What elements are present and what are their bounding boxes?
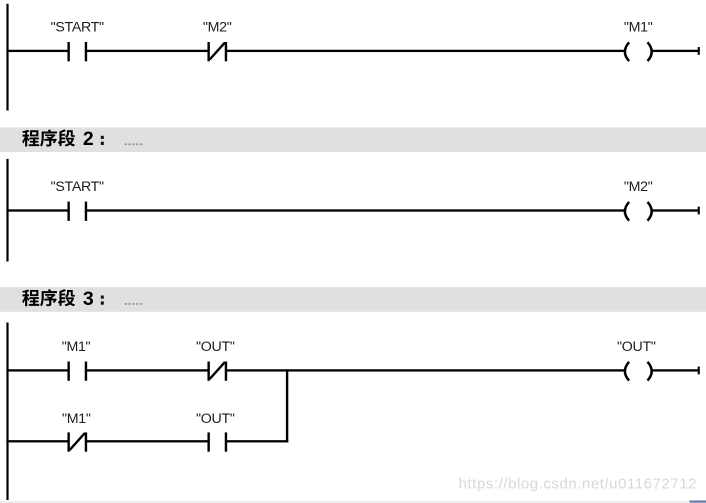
svg-text:"M2": "M2" <box>624 179 653 195</box>
wire network 1: coil M1 to right end <box>651 50 699 52</box>
contact M1 (normally closed): left bar <box>67 432 69 451</box>
wire network 3 bottom branch: M1 to OUT <box>86 440 209 442</box>
network 3 title character 序 <box>40 289 57 306</box>
wire network 2: rail to contact START <box>6 209 68 211</box>
svg-text:"OUT": "OUT" <box>196 339 235 355</box>
coil M1: left parenthesis <box>625 42 629 61</box>
right rail tick (network 2) <box>698 207 700 215</box>
contact OUT (normally open): left bar <box>207 432 209 451</box>
left power rail (network 2) <box>6 159 8 262</box>
wire network 3: coil OUT to right end <box>651 369 699 371</box>
coil M2: right parenthesis <box>648 202 652 221</box>
network 3 comment placeholder dots <box>125 303 127 305</box>
wire network 1: rail to contact START <box>6 50 68 52</box>
network 2 title character 段 <box>58 129 75 146</box>
network 2 title character 序 <box>40 129 57 146</box>
svg-text:"START": "START" <box>51 179 104 195</box>
wire network 1: M2 to coil M1 <box>226 50 625 52</box>
contact OUT (normally closed): left bar <box>207 362 209 381</box>
network 2 header band <box>0 127 706 152</box>
svg-text:"M2": "M2" <box>203 19 232 35</box>
contact M1 (normally open): right bar <box>85 362 87 381</box>
svg-text:"M1": "M1" <box>62 339 91 355</box>
coil M2: left parenthesis <box>625 202 629 221</box>
network 3 title character 段 <box>58 289 75 306</box>
contact M1 (normally open): left bar <box>67 362 69 381</box>
wire network 3 top branch: rail to contact M1 <box>6 369 68 371</box>
network 2 title colon <box>101 136 104 139</box>
wire network 3 bottom branch: OUT to junction <box>226 440 288 442</box>
svg-text:2: 2 <box>83 128 94 150</box>
right rail tick (network 1) <box>698 47 700 55</box>
svg-text:"M1": "M1" <box>624 19 653 35</box>
contact M1 (normally closed): right bar <box>85 432 87 451</box>
network 3 title colon <box>101 296 104 299</box>
vertical junction wire joining bottom branch to top branch <box>286 369 288 442</box>
wire network 2: coil M2 to right end <box>651 209 699 211</box>
contact START (normally open): left bar <box>67 202 69 221</box>
coil M1: right parenthesis <box>648 42 652 61</box>
contact OUT (normally open): right bar <box>225 432 227 451</box>
svg-text:3: 3 <box>83 288 94 310</box>
wire network 3 top branch: OUT to coil OUT <box>226 369 625 371</box>
svg-text:"M1": "M1" <box>62 411 91 427</box>
svg-text:"OUT": "OUT" <box>196 411 235 427</box>
svg-text:https://blog.csdn.net/u0116727: https://blog.csdn.net/u011672712 <box>459 476 697 493</box>
network 2 title character 程 <box>22 130 39 147</box>
network 2 comment placeholder dots <box>125 143 127 145</box>
bottom-right scrollbar button <box>690 501 706 503</box>
svg-text:"OUT": "OUT" <box>617 339 656 355</box>
contact M2 (normally closed): left bar <box>207 42 209 61</box>
contact OUT (normally closed): right bar <box>225 362 227 381</box>
wire network 2: START to coil M2 <box>86 209 625 211</box>
contact START (normally open): left bar <box>67 42 69 61</box>
coil OUT: right parenthesis <box>648 362 652 381</box>
coil OUT: left parenthesis <box>625 362 629 381</box>
svg-text:"START": "START" <box>51 19 104 35</box>
wire network 3 bottom branch: rail to contact M1 <box>6 440 68 442</box>
wire network 1: START to M2 <box>86 50 209 52</box>
left power rail (network 1) <box>6 4 8 111</box>
wire network 3 top branch: M1 to OUT <box>86 369 209 371</box>
contact M2 (normally closed): slash <box>210 43 225 60</box>
left power rail (network 3) <box>6 323 8 501</box>
contact START (normally open): right bar <box>85 42 87 61</box>
bottom scrollbar strip <box>0 501 706 503</box>
network 3 title character 程 <box>22 289 39 306</box>
network 3 header band <box>0 287 706 312</box>
right rail tick (network 3) <box>698 367 700 375</box>
contact OUT (normally closed): slash <box>210 362 225 379</box>
contact START (normally open): right bar <box>85 202 87 221</box>
contact M2 (normally closed): right bar <box>225 42 227 61</box>
contact M1 (normally closed): slash <box>70 433 85 450</box>
